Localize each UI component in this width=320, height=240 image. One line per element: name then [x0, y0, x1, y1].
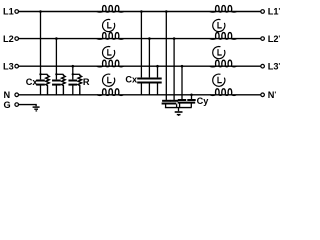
core symbol (circled L) of choke 2 L3 winding	[213, 74, 225, 86]
capacitor Cy3/Cy4 shared bottom plate	[178, 102, 196, 104]
node: junction on L3 for Cx3/R3	[72, 65, 75, 68]
ground symbol (left, at G)	[33, 107, 40, 111]
capacitor Cx5 (mid, L2-N)	[145, 39, 153, 95]
inductor winding (choke 1, L1 line)	[97, 6, 124, 13]
node: junction on L2 for Cy2	[173, 37, 176, 40]
wire: line L3 from input to output	[19, 65, 261, 67]
terminal L2 (input)	[15, 37, 19, 41]
terminal N' (output)	[261, 93, 265, 97]
svg-text:Cx: Cx	[26, 77, 39, 87]
capacitor Cy1 (L1-ground): lead and top plate	[162, 12, 170, 101]
capacitor Cx1 (L1-N)	[36, 74, 45, 95]
svg-text:L3': L3'	[268, 61, 281, 71]
terminal L1' (output)	[261, 10, 265, 14]
capacitor Cy4 (N-ground): lead and top plate	[187, 95, 195, 100]
wire: split bar to R3	[73, 73, 80, 75]
wire: line L2 from input to output	[19, 38, 261, 40]
wire: L1 down to Cx1/R1 pair	[40, 12, 42, 75]
inductor winding (choke 1, L2 line)	[97, 33, 124, 40]
inductor winding (choke 1, L3 line)	[97, 60, 124, 67]
capacitor Cy1/Cy2 shared bottom plate	[162, 103, 177, 105]
terminal L1 (input)	[15, 10, 19, 14]
resistor R3 (discharge, parallel with Cx3)	[78, 74, 82, 95]
inductor winding (choke 1, N line)	[97, 89, 124, 96]
terminal N (input)	[15, 93, 19, 97]
svg-text:R: R	[83, 77, 90, 87]
terminal L2' (output)	[261, 37, 265, 41]
svg-text:L1': L1'	[268, 7, 281, 17]
svg-text:L3: L3	[3, 61, 14, 71]
ground symbol (Cy bank)	[175, 112, 183, 116]
capacitor Cy2 (L2-ground): lead and top plate	[170, 39, 178, 101]
output terminal labels	[268, 7, 281, 100]
capacitor Cx3 (L3-N)	[68, 74, 77, 95]
inductor winding (choke 2, L3 line)	[210, 60, 237, 67]
capacitor Cy3 (L3-ground): lead and top plate	[178, 66, 186, 100]
svg-text:G: G	[4, 100, 11, 110]
svg-text:N: N	[4, 90, 11, 100]
wire: line L1 from input to output	[19, 11, 261, 13]
wire: split bar to R2	[56, 73, 63, 75]
node: junction on L1 for mid Cx4	[140, 10, 143, 13]
wire: L2 down to Cx2/R2 pair	[55, 39, 57, 75]
terminal G (ground input)	[15, 103, 19, 107]
input terminal labels	[3, 7, 14, 110]
terminal L3 (input)	[15, 64, 19, 68]
resistor R1 (discharge, parallel with Cx1)	[46, 74, 50, 95]
node: split junction of Cx2/R2	[55, 73, 57, 75]
wire: Cy bottom plates down to ground bus	[166, 103, 192, 107]
capacitor Cx2 (L2-N)	[52, 74, 61, 95]
svg-text:Cy: Cy	[197, 96, 210, 106]
core symbol (circled L) of choke 1 L1 winding	[103, 19, 115, 31]
core symbol (circled L) of choke 1 L2 winding	[103, 47, 115, 59]
wire: G terminal to chassis ground	[19, 105, 36, 107]
node: junction on L3 for mid Cx6	[156, 65, 159, 68]
core symbol (circled L) of choke 2 L2 winding	[213, 47, 225, 59]
core symbol (circled L) of choke 1 L3 winding	[103, 74, 115, 86]
inductor winding (choke 2, L2 line)	[210, 33, 237, 40]
svg-text:L1: L1	[3, 7, 14, 17]
inductor winding (choke 2, L1 line)	[210, 6, 237, 13]
capacitor Cx6 (mid, L3-N)	[153, 66, 161, 95]
core symbol (circled L) of choke 2 L1 winding	[213, 19, 225, 31]
capacitor Cx4 (mid, L1-N)	[137, 12, 145, 95]
resistor R2 (discharge, parallel with Cx2)	[62, 74, 66, 95]
wire: L3 down to Cx3/R3 pair	[72, 66, 74, 74]
node: junction on L2 for Cx2/R2	[55, 37, 58, 40]
wire: line N from input to output	[19, 94, 261, 96]
svg-text:Cx: Cx	[125, 74, 138, 84]
node: junction on L1 for Cx1/R1	[39, 10, 42, 13]
inductor winding (choke 2, N line)	[210, 89, 237, 96]
node: junction on L1 for Cy1	[165, 10, 168, 13]
node: junction on N for Cy4	[190, 94, 193, 97]
node: junction on L2 for mid Cx5	[148, 37, 151, 40]
node: split junction of Cx1/R1	[39, 73, 41, 75]
wire: split bar to R1	[41, 73, 48, 75]
terminal L3' (output)	[261, 64, 265, 68]
wire: bus to ground symbol	[178, 108, 180, 112]
svg-text:L2': L2'	[268, 34, 281, 44]
svg-text:N': N'	[268, 90, 277, 100]
node: junction on L3 for Cy3	[181, 65, 184, 68]
node: split junction of Cx3/R3	[72, 73, 74, 75]
wire: Cy ground bus	[165, 107, 192, 109]
svg-text:L2: L2	[3, 34, 14, 44]
